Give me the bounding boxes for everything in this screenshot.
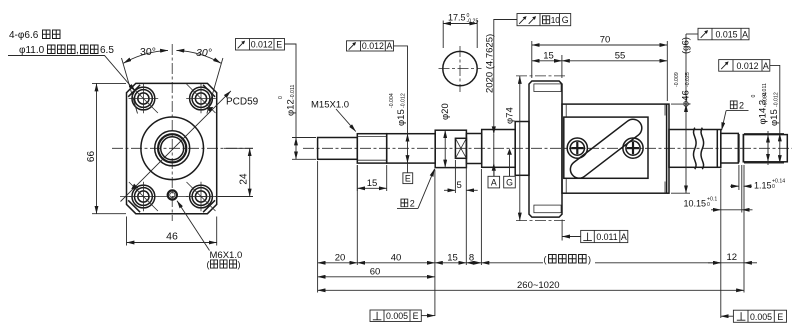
svg-text:0.012: 0.012 <box>362 41 384 51</box>
svg-text:0.015: 0.015 <box>715 30 737 40</box>
dim 24 <box>218 148 253 196</box>
ext lines phi15 journal right <box>744 133 784 163</box>
svg-text:30°: 30° <box>196 47 212 59</box>
svg-text:E: E <box>413 311 419 321</box>
FCF total runout table10 G <box>494 14 571 134</box>
dim 66 <box>86 83 126 213</box>
svg-text:260~1020: 260~1020 <box>517 280 560 291</box>
chamfer inner line bottom-right <box>203 200 215 212</box>
ext line screw start <box>480 169 482 265</box>
FCF perp 0.005 E bottom center <box>370 310 435 322</box>
row1 dim 12 <box>708 252 757 263</box>
svg-text:60: 60 <box>370 266 381 277</box>
return tube cover plate <box>564 117 648 178</box>
dim 17.5 <box>443 13 478 49</box>
svg-text:40: 40 <box>391 252 402 263</box>
svg-text:-0.004: -0.004 <box>389 93 395 108</box>
svg-text:G: G <box>562 15 569 25</box>
row1 hardening range <box>481 254 720 264</box>
centerline bottom holes <box>120 196 253 198</box>
cover screw right <box>623 138 643 158</box>
svg-text:0: 0 <box>278 96 284 99</box>
ext line thread start <box>356 165 358 265</box>
dim phi15 left <box>389 93 408 173</box>
svg-text:PCD59: PCD59 <box>226 97 259 108</box>
dim 70 <box>532 35 668 102</box>
svg-text:(g6): (g6) <box>681 37 692 54</box>
note 4-d6.6 line1 <box>9 30 60 41</box>
shaft seg phi20 journal <box>435 130 466 167</box>
svg-text:G: G <box>506 178 513 188</box>
shaft seg phi12 <box>318 138 358 160</box>
datum A box <box>488 176 500 188</box>
ext line journal right <box>465 159 467 265</box>
bolt hole bottom-left <box>129 182 159 212</box>
svg-text:E: E <box>276 40 282 50</box>
phi15 bearing journal <box>721 133 739 163</box>
svg-text:6.5: 6.5 <box>100 45 114 56</box>
svg-text:2: 2 <box>739 101 744 111</box>
svg-text:A: A <box>763 61 769 71</box>
svg-text:A: A <box>742 30 748 40</box>
svg-text:15: 15 <box>367 178 378 189</box>
svg-text:2: 2 <box>410 199 415 209</box>
row3 dim 260~1020 <box>318 280 744 291</box>
bolt hole top-right <box>186 84 216 114</box>
note2 label left <box>397 169 435 209</box>
dim 15 thread <box>357 165 386 191</box>
PCD tick upper <box>206 107 213 113</box>
M6X1.0 label <box>207 250 243 270</box>
svg-text:0: 0 <box>772 184 775 190</box>
svg-text:A: A <box>491 178 497 188</box>
dim 10.15 <box>684 165 753 213</box>
datum A box mid (under neck) <box>493 170 495 176</box>
cover screw left <box>567 138 587 158</box>
dim phi14.3 <box>751 83 769 165</box>
svg-text:,: , <box>76 45 79 56</box>
30deg radial line right <box>207 58 223 114</box>
note leader <box>8 56 135 92</box>
FCF runout 0.012 A right <box>719 60 780 134</box>
PCD diagonal line <box>121 91 231 202</box>
svg-text:1.15: 1.15 <box>754 180 772 190</box>
PCD tick lower <box>131 184 138 190</box>
svg-text:17.5: 17.5 <box>448 13 466 23</box>
svg-text:M15X1.0: M15X1.0 <box>311 100 349 111</box>
svg-text:10.15: 10.15 <box>684 199 707 209</box>
svg-text:24: 24 <box>239 173 250 185</box>
note line2 d11.0 <box>19 45 114 56</box>
svg-text:-0.25: -0.25 <box>467 19 479 25</box>
FCF runout 0.012 E <box>236 39 297 138</box>
row2 dim 60 <box>318 266 435 277</box>
datum A stem arrows <box>492 126 496 176</box>
dim 5 groove <box>444 160 478 193</box>
dim 15 flange width <box>532 50 562 78</box>
ext line shaft right ref <box>743 165 745 293</box>
return tube slot <box>567 116 645 182</box>
svg-text:A: A <box>621 232 627 242</box>
svg-text:70: 70 <box>600 35 611 46</box>
M15X1.0 label <box>311 100 356 132</box>
datum G stem <box>507 148 512 176</box>
FCF runout 0.012 A <box>347 41 408 134</box>
FCF perp 0.005 E bottom right <box>721 310 787 322</box>
row1 dims 20 40 15 8 <box>318 252 482 263</box>
svg-text:46: 46 <box>166 231 178 243</box>
ext line journal left <box>434 170 436 317</box>
shaft seg M15 thread <box>357 134 386 163</box>
shaft neck <box>466 134 481 164</box>
svg-text:12: 12 <box>727 252 738 263</box>
snap ring groove <box>739 134 744 162</box>
svg-text:15: 15 <box>447 252 458 263</box>
bolt hole top-left <box>129 84 159 114</box>
dim phi12 <box>278 85 316 160</box>
svg-text:-0.012: -0.012 <box>401 93 407 108</box>
svg-text:(: ( <box>207 260 210 270</box>
screw cross-section circle <box>439 46 482 92</box>
svg-text:E: E <box>777 312 783 322</box>
dim phi74 <box>505 76 520 221</box>
svg-text:20: 20 <box>335 252 346 263</box>
chamfer inner line top-left <box>128 85 140 97</box>
svg-text:10: 10 <box>551 15 561 25</box>
dim phi15 right <box>763 92 781 163</box>
svg-text:-0.025: -0.025 <box>685 72 691 87</box>
svg-text:66: 66 <box>86 151 97 163</box>
svg-text:5: 5 <box>457 180 462 191</box>
svg-text:0.012: 0.012 <box>736 61 758 71</box>
svg-text:φ46: φ46 <box>681 90 692 107</box>
flange outline <box>127 83 217 213</box>
svg-text:(: ( <box>544 255 547 265</box>
chamfer inner line top-right <box>203 85 215 97</box>
nut body cylinder <box>562 104 669 193</box>
svg-text:-0.011: -0.011 <box>290 85 296 99</box>
centerline horizontal flange <box>112 147 253 149</box>
ext line screw end <box>720 169 722 319</box>
svg-text:-0.004: -0.004 <box>763 92 769 107</box>
svg-text:φ12: φ12 <box>286 99 297 116</box>
circlip groove crossed box <box>455 138 466 158</box>
svg-text:55: 55 <box>615 50 626 61</box>
svg-text:0.005: 0.005 <box>386 311 408 321</box>
shaft seg phi15 <box>387 134 436 163</box>
M6 leader <box>177 201 210 251</box>
datum G box mid <box>509 170 511 176</box>
svg-text:4-φ6.6: 4-φ6.6 <box>9 30 39 41</box>
datum G box <box>504 176 516 188</box>
svg-text:15: 15 <box>543 50 554 61</box>
svg-text:0.005: 0.005 <box>750 312 772 322</box>
ext line shaft left end <box>317 161 319 293</box>
svg-text:φ15: φ15 <box>396 109 407 126</box>
nut spigot <box>515 122 529 176</box>
svg-text:0.011: 0.011 <box>596 232 617 242</box>
chamfer inner line bottom-left <box>128 200 140 212</box>
dim 1.15 <box>730 165 785 190</box>
dim 55 <box>562 50 667 61</box>
screw section left <box>482 130 516 168</box>
svg-text:-0.012: -0.012 <box>774 92 780 107</box>
bolt hole bottom-right <box>186 182 216 212</box>
svg-text:φ74: φ74 <box>505 107 516 124</box>
main centerline <box>303 147 792 149</box>
dim phi46 g6 <box>671 34 692 193</box>
oil hole M6 <box>168 190 177 199</box>
svg-text:A: A <box>386 41 392 51</box>
30deg radial line left <box>122 58 138 114</box>
svg-text:0.012: 0.012 <box>251 40 273 50</box>
phi14.3 end section <box>743 135 787 162</box>
dim phi20 <box>440 103 451 167</box>
svg-text:φ15: φ15 <box>769 109 780 126</box>
svg-text:0: 0 <box>707 202 710 208</box>
svg-text:φ20: φ20 <box>440 103 451 120</box>
note2 label right <box>722 101 749 131</box>
center bore circles <box>141 117 204 180</box>
svg-text:8: 8 <box>469 252 474 263</box>
FCF perp 0.011 A <box>562 220 628 243</box>
svg-text:30°: 30° <box>140 46 156 58</box>
svg-text:): ) <box>588 255 591 265</box>
datum E box <box>403 173 413 184</box>
svg-text:E: E <box>405 174 411 184</box>
nut flange <box>516 76 566 221</box>
svg-text:0: 0 <box>751 95 757 98</box>
svg-text:-0.009: -0.009 <box>674 72 680 87</box>
dim 46 <box>127 217 217 246</box>
30deg arc dimension <box>124 50 221 63</box>
FCF runout 0.015 A <box>686 28 749 40</box>
centerline vertical flange <box>171 44 173 221</box>
screw section right <box>669 128 721 170</box>
svg-text:): ) <box>238 260 241 270</box>
svg-text:φ11.0: φ11.0 <box>19 45 45 56</box>
